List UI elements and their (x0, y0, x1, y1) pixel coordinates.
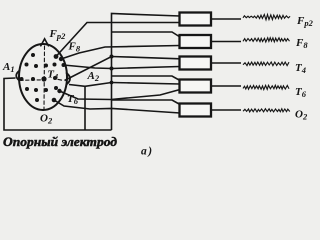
svg-text:а): а) (141, 146, 152, 158)
svg-text:Опорный электрод: Опорный электрод (3, 135, 117, 149)
